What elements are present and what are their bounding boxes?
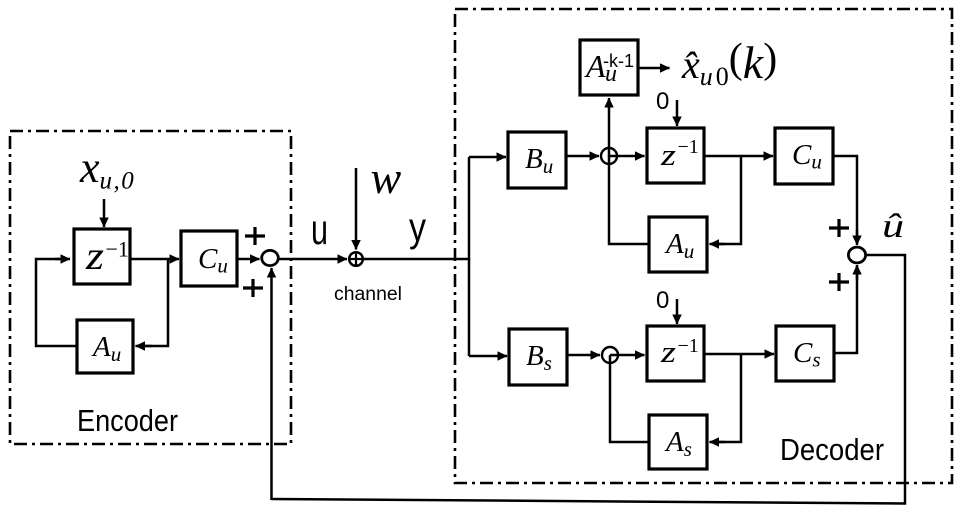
svg-text:u: u (311, 206, 328, 254)
svg-text:−1: −1 (678, 136, 699, 158)
svg-text:z: z (85, 233, 105, 278)
svg-text:u: u (605, 61, 617, 87)
svg-text:û: û (882, 207, 904, 245)
svg-text:z: z (660, 334, 676, 369)
svg-text:0: 0 (656, 287, 669, 314)
svg-text:x̂u0(k): x̂u0(k) (681, 36, 777, 91)
svg-text:w: w (371, 152, 402, 203)
svg-text:y: y (409, 204, 426, 250)
svg-text:Decoder: Decoder (780, 432, 884, 467)
svg-text:−1: −1 (678, 335, 699, 357)
svg-text:xu,0: xu,0 (79, 143, 135, 195)
svg-text:channel: channel (334, 284, 402, 305)
svg-text:−1: −1 (106, 237, 129, 262)
svg-text:z: z (660, 137, 676, 172)
svg-text:0: 0 (656, 88, 669, 115)
svg-text:Encoder: Encoder (77, 403, 178, 438)
